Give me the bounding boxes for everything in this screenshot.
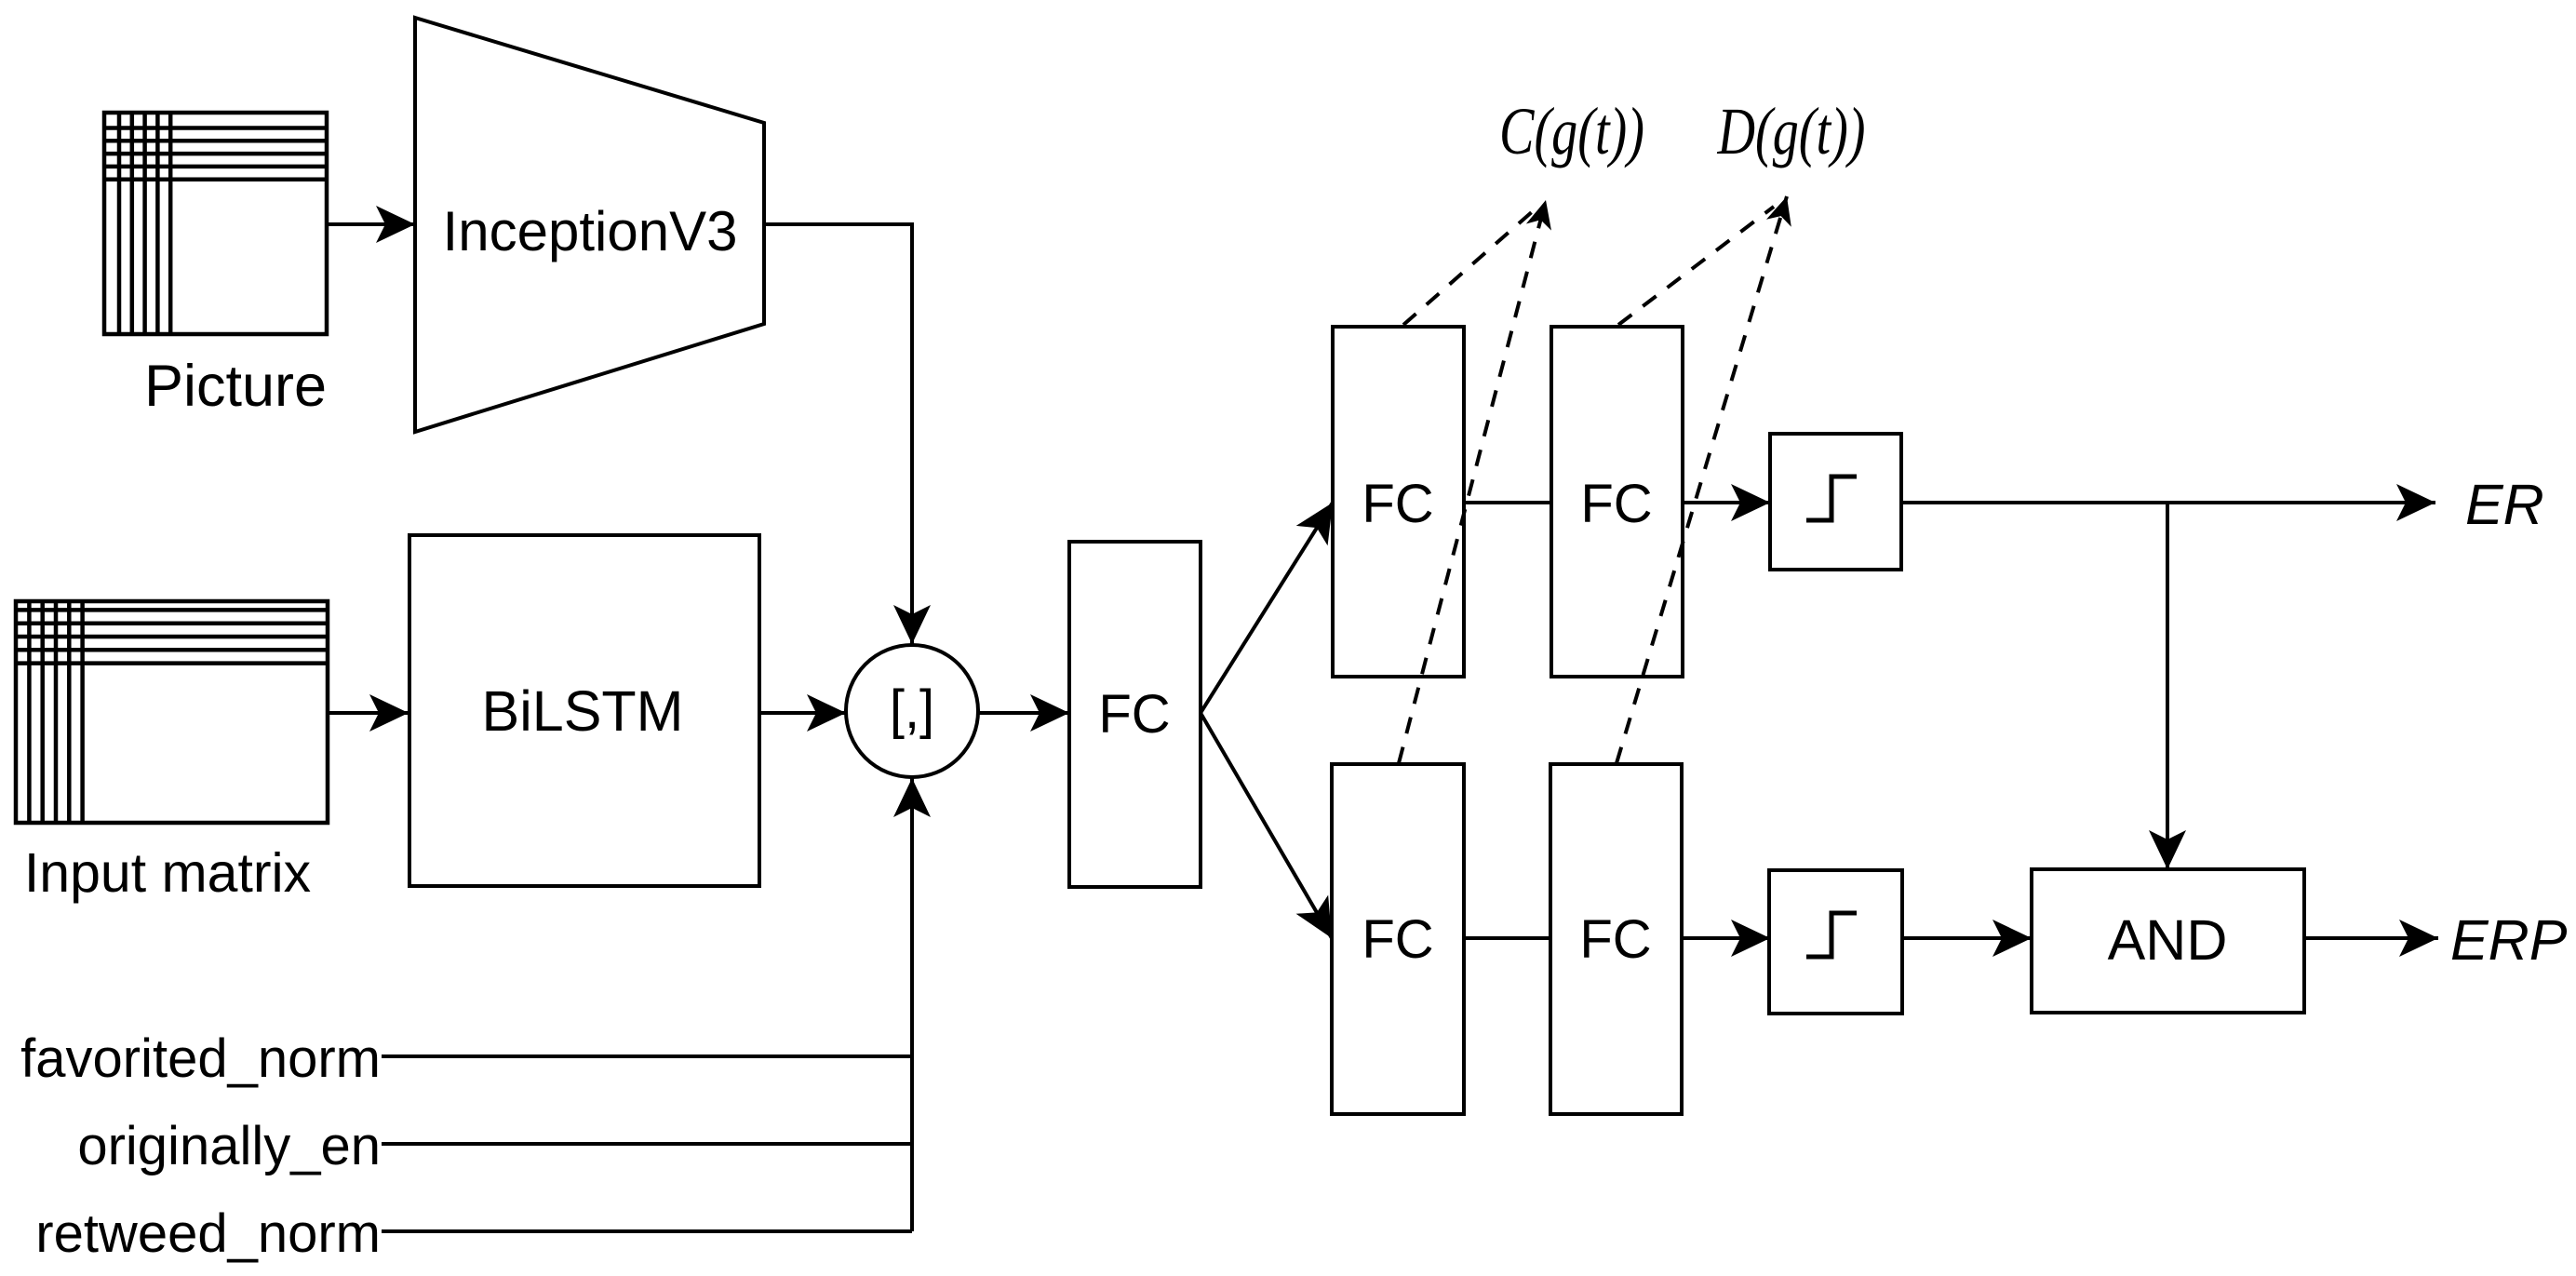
svg-text:C(g(t)): C(g(t)): [1499, 93, 1644, 168]
wire FC2 to FC3: [1464, 501, 1551, 504]
wire FC5 to step2: [1683, 936, 1770, 940]
Input matrix icon: [16, 601, 328, 823]
wire AND to ERP: [2304, 936, 2438, 940]
wire FC4 to FC5: [1465, 936, 1550, 940]
originally_en wire: [382, 1142, 912, 1146]
svg-text:ERP: ERP: [2450, 908, 2568, 972]
wire Input matrix to BiLSTM: [328, 711, 409, 715]
svg-text:[,]: [,]: [890, 679, 934, 740]
svg-text:FC: FC: [1579, 909, 1651, 970]
InceptionV3 trapezoid: [415, 18, 764, 432]
wire BiLSTM to concat circle: [759, 711, 846, 715]
svg-text:ER: ER: [2465, 473, 2544, 536]
svg-text:BiLSTM: BiLSTM: [482, 679, 684, 743]
svg-text:FC: FC: [1362, 909, 1433, 970]
D(g(t)) label: [1717, 93, 1866, 168]
step symbol 2: [1806, 913, 1857, 957]
diagonal wire FC1 to FC2: [1201, 503, 1333, 713]
diagonal wire FC1 to FC4: [1201, 713, 1332, 938]
wire step1 to ER: [1901, 501, 2435, 504]
FC1 box: [1069, 542, 1201, 887]
dashed arrow FC5 to D(g(t)): [1617, 196, 1787, 763]
dashed line FC3 to D(g(t)): [1618, 207, 1774, 325]
svg-text:AND: AND: [2108, 908, 2228, 972]
FC2 box: [1333, 327, 1464, 677]
BiLSTM box: [409, 535, 759, 886]
svg-text:favorited_norm: favorited_norm: [20, 1028, 381, 1089]
svg-text:retweed_norm: retweed_norm: [35, 1203, 381, 1264]
retweed_norm wire: [382, 1229, 912, 1233]
step function box 1: [1770, 434, 1901, 570]
FC5 box: [1550, 764, 1682, 1114]
svg-text:Picture: Picture: [144, 354, 327, 419]
wire InceptionV3 to concat circle: [764, 224, 912, 644]
wire FC3 to step1: [1683, 501, 1770, 504]
favorited_norm wire: [382, 1054, 912, 1058]
step function box 2: [1769, 870, 1902, 1014]
svg-text:FC: FC: [1362, 474, 1433, 534]
Picture matrix icon: [104, 113, 327, 334]
C(g(t)) label: [1499, 93, 1644, 168]
svg-text:D(g(t)): D(g(t)): [1717, 93, 1866, 168]
dashed line FC2 to C(g(t)): [1403, 210, 1534, 325]
FC3 box: [1551, 327, 1683, 677]
wire concat circle to FC1: [978, 711, 1069, 715]
FC4 box: [1332, 764, 1464, 1114]
wire step2 to AND: [1902, 936, 2032, 940]
concat circle node: [846, 645, 978, 777]
vertical wire norms to concat circle: [910, 778, 914, 1231]
svg-text:originally_en: originally_en: [77, 1116, 381, 1176]
svg-text:FC: FC: [1580, 474, 1652, 534]
wire Picture to InceptionV3: [327, 222, 415, 226]
AND box: [2032, 869, 2304, 1013]
dashed arrow FC4 to C(g(t)): [1399, 200, 1546, 763]
step symbol 1: [1806, 477, 1857, 520]
svg-text:FC: FC: [1098, 684, 1170, 745]
svg-text:Input matrix: Input matrix: [24, 842, 311, 904]
svg-text:InceptionV3: InceptionV3: [443, 200, 738, 262]
branch wire down to AND: [2166, 503, 2169, 869]
